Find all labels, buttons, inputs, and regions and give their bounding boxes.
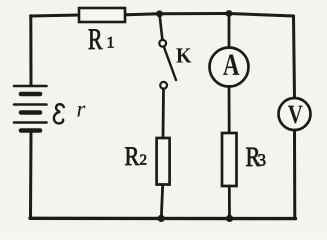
wire R3 to bottom node xyxy=(228,186,231,218)
wire R2 to bottom node xyxy=(161,185,162,219)
node junction bottom at R3 branch xyxy=(226,215,233,222)
battery cell 2 long plate xyxy=(14,103,47,106)
battery cell 1 short thick plate xyxy=(21,92,40,97)
wire left upper lead to battery xyxy=(29,16,32,85)
battery cell 1 long plate xyxy=(14,85,47,88)
resistor R2 xyxy=(157,138,170,185)
wire ammeter upper lead xyxy=(228,14,231,48)
battery cell 3 short thick plate xyxy=(21,128,40,133)
label R3 xyxy=(246,148,265,166)
wire bottom xyxy=(30,217,296,221)
resistor R3 xyxy=(222,133,237,186)
label EMF script-E xyxy=(54,104,64,123)
wire top-right segment xyxy=(229,14,294,17)
label R1 xyxy=(89,29,114,49)
node junction bottom at R2 branch xyxy=(158,215,165,222)
ammeter letter A xyxy=(223,54,239,74)
battery cell 3 long plate xyxy=(14,121,47,124)
switch K top contact xyxy=(159,40,166,47)
wire switch to R2 xyxy=(162,89,165,138)
node junction top at switch branch xyxy=(156,10,163,17)
battery cell 2 short thick plate xyxy=(21,110,40,115)
switch K blade xyxy=(164,47,176,80)
wire left lower lead from battery xyxy=(29,131,33,218)
label K xyxy=(176,48,191,62)
node junction top at ammeter branch xyxy=(226,10,233,17)
wire right lower lead from voltmeter xyxy=(293,129,296,219)
voltmeter body xyxy=(279,98,311,130)
ammeter U-A body xyxy=(210,48,249,87)
wire switch upper lead xyxy=(160,14,163,40)
wire top-left segment xyxy=(31,15,81,16)
resistor R1 xyxy=(79,8,125,22)
switch K bottom contact xyxy=(160,82,167,89)
voltmeter letter V xyxy=(288,106,302,124)
wire top middle segment xyxy=(124,14,160,15)
wire top segment switch-node to ammeter-node xyxy=(160,12,230,15)
label r internal resistance xyxy=(77,106,85,117)
wire right upper lead to voltmeter xyxy=(294,16,295,99)
wire ammeter to R3 xyxy=(228,87,231,134)
label R2 xyxy=(125,147,146,165)
